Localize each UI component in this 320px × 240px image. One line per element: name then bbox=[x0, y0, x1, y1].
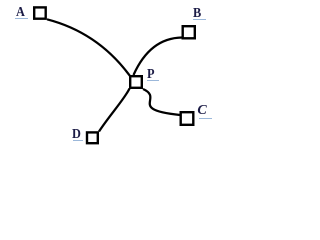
wire P-B bbox=[134, 38, 183, 76]
node B label bbox=[193, 7, 201, 21]
node B underline bbox=[193, 19, 206, 20]
node A label bbox=[16, 6, 25, 20]
wire P-C bbox=[143, 89, 180, 115]
node D underline bbox=[73, 140, 83, 141]
node C label bbox=[197, 104, 206, 118]
node D square bbox=[87, 132, 98, 143]
node A square bbox=[34, 7, 46, 18]
wire P-D bbox=[99, 89, 130, 132]
node A underline bbox=[15, 18, 28, 19]
node P underline bbox=[147, 80, 159, 81]
node D label bbox=[72, 128, 81, 142]
wires and squares layer bbox=[0, 0, 227, 152]
node B square bbox=[183, 26, 195, 38]
node P label bbox=[147, 68, 155, 82]
wire A-P bbox=[47, 19, 130, 76]
node C square bbox=[181, 112, 194, 125]
node P square bbox=[130, 76, 142, 88]
node C underline bbox=[199, 118, 212, 119]
